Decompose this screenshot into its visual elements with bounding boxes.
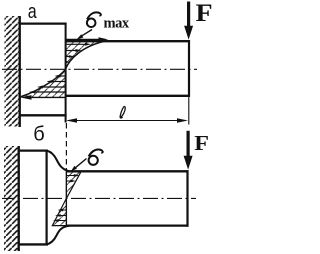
stress area hatch upper (a) bbox=[66, 41, 109, 70]
fillet bottom (b) bbox=[47, 226, 70, 245]
fillet top (b) bbox=[47, 151, 70, 172]
wall hatching (b) bbox=[4, 146, 19, 251]
clamped block (a) bottom edge bbox=[19, 114, 67, 116]
stress baseline (b) bbox=[65, 171, 67, 225]
long compression arrow at bottom fiber (a) bbox=[30, 96, 66, 98]
dashed section line from dimension to beam (b) bbox=[65, 123, 67, 171]
block (b) top edge bbox=[18, 150, 49, 152]
label a bbox=[28, 1, 38, 23]
leader arrow from sigma_max to curve bbox=[81, 30, 93, 37]
wall line (a) = block left edge bbox=[19, 16, 21, 127]
stress arrow left y87 bbox=[42, 86, 66, 88]
centerline (b) dash-dot bbox=[2, 197, 196, 199]
letter l (script ell) bbox=[120, 107, 125, 118]
F label (a) bbox=[196, 0, 213, 27]
stress arrow right y56 bbox=[66, 56, 70, 58]
block (b) right edge bbox=[45, 150, 47, 246]
clamped block (a) top edge bbox=[19, 23, 67, 25]
svg-text:max: max bbox=[104, 16, 130, 32]
sigma glyph (b) bbox=[89, 150, 103, 165]
stress arrow right y50 bbox=[66, 50, 77, 52]
stress arrow left y92 bbox=[34, 91, 66, 93]
beam (a) right end edge bbox=[188, 40, 190, 97]
dimension line l bbox=[68, 120, 186, 122]
stress curve lower (a) bbox=[20, 69, 66, 97]
beam (b) right end edge bbox=[186, 170, 188, 227]
beam (a) bottom edge bbox=[66, 95, 191, 97]
svg-text:F: F bbox=[196, 0, 213, 27]
beam (b) top edge bbox=[67, 170, 189, 172]
stress arrow left (b) y210 bbox=[62, 209, 66, 211]
extension line below beam right end bbox=[188, 97, 190, 125]
stress curve upper (a) bbox=[66, 41, 109, 70]
svg-text:а: а bbox=[28, 1, 38, 23]
stress triangle upper (b) bbox=[66, 171, 81, 198]
clamped block (a) right edge / stress baseline, extends to dimension line bbox=[65, 23, 67, 123]
force F arrow (b) bbox=[187, 131, 190, 158]
stress arrow right y62 bbox=[65, 61, 70, 64]
stress arrow left y76 bbox=[60, 75, 66, 77]
stress triangle lower (b) bbox=[52, 198, 66, 225]
sigma_max top stress arrow (a) bbox=[66, 38, 100, 40]
wall line (b) = block left edge bbox=[18, 146, 20, 251]
centerline (a) dash-dot bbox=[2, 68, 197, 70]
leader line from sigma (b) to triangle bbox=[74, 159, 87, 170]
wall hatching (a) bbox=[5, 16, 20, 127]
stress arrow left (b) y215.5 bbox=[60, 215, 66, 217]
stress arrow left y81.5 bbox=[52, 81, 66, 83]
stress arrow right (b) y175 bbox=[67, 175, 75, 177]
svg-text:F: F bbox=[194, 131, 209, 155]
stress arrow right (b) y181 bbox=[67, 180, 72, 182]
stress area hatch lower (a) bbox=[20, 69, 66, 97]
svg-text:б: б bbox=[33, 124, 44, 146]
sigma glyph (a) bbox=[87, 12, 101, 27]
stress arrow left (b) y220.5 bbox=[59, 220, 67, 222]
beam (b) bottom edge bbox=[67, 224, 189, 226]
F label (b) bbox=[194, 131, 209, 155]
force F arrow (a) bbox=[187, 2, 190, 29]
beam (a) top edge bbox=[66, 40, 191, 42]
stress arrow right y44 bbox=[66, 43, 86, 45]
block (b) bottom edge bbox=[18, 243, 49, 245]
